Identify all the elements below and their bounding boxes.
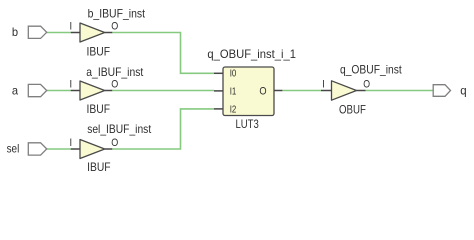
svg-text:b_IBUF_inst: b_IBUF_inst (88, 7, 146, 21)
input port sel (28, 143, 46, 155)
wire net sel: port sel to IBUF input (47, 148, 71, 150)
buffer q_OBUF_inst pin I stub (321, 90, 332, 92)
svg-text:O: O (363, 78, 370, 90)
buffer a_IBUF_inst pin O stub (105, 90, 113, 92)
svg-text:I: I (322, 78, 325, 90)
svg-text:I1: I1 (230, 87, 237, 98)
svg-text:LUT3: LUT3 (236, 117, 260, 131)
wire net q_OBUF: LUT3 O to OBUF input (282, 90, 321, 92)
svg-text:b: b (12, 25, 18, 39)
input port a (28, 84, 46, 96)
buffer b_IBUF_inst pin O stub (105, 32, 113, 34)
svg-text:q_OBUF_inst: q_OBUF_inst (340, 62, 402, 76)
svg-text:I: I (70, 78, 73, 90)
buffer b_IBUF_inst pin I stub (71, 32, 80, 34)
wire net b: port b to IBUF input (47, 32, 71, 34)
svg-text:I2: I2 (230, 105, 237, 116)
buffer q_OBUF_inst pin O stub (357, 90, 366, 92)
wire net b_IBUF: IBUF output to LUT3 I0 (112, 33, 214, 74)
svg-text:a_IBUF_inst: a_IBUF_inst (86, 65, 144, 79)
svg-text:O: O (111, 78, 118, 90)
buffer a_IBUF_inst pin I stub (71, 90, 80, 92)
svg-text:q: q (460, 83, 466, 97)
svg-text:IBUF: IBUF (87, 45, 111, 59)
LUT q_OBUF_inst_i_1 pin O stub (274, 90, 282, 92)
svg-text:sel_IBUF_inst: sel_IBUF_inst (87, 122, 152, 136)
svg-text:I: I (70, 20, 73, 32)
buffer sel_IBUF_inst pin I stub (71, 148, 80, 150)
svg-text:OBUF: OBUF (339, 102, 366, 116)
svg-text:a: a (12, 83, 18, 97)
svg-text:O: O (111, 20, 118, 32)
svg-text:sel: sel (7, 141, 20, 155)
wire net sel_IBUF: IBUF output to LUT3 I2 (112, 109, 214, 149)
input port b (28, 26, 46, 38)
svg-text:O: O (111, 137, 118, 149)
LUT q_OBUF_inst_i_1 (LUT3) (223, 67, 274, 116)
svg-text:I0: I0 (230, 69, 237, 80)
svg-text:I: I (70, 137, 73, 149)
buffer q_OBUF_inst (OBUF) (332, 81, 357, 100)
buffer a_IBUF_inst (IBUF) (80, 81, 105, 100)
buffer sel_IBUF_inst (IBUF) (80, 140, 105, 159)
LUT q_OBUF_inst_i_1 pin I1 stub (214, 90, 223, 92)
svg-text:O: O (259, 86, 267, 98)
LUT q_OBUF_inst_i_1 pin I0 stub (214, 72, 223, 74)
svg-text:q_OBUF_inst_i_1: q_OBUF_inst_i_1 (207, 47, 296, 61)
wire net q: OBUF output to port q (366, 90, 434, 92)
buffer b_IBUF_inst (IBUF) (80, 23, 105, 42)
LUT q_OBUF_inst_i_1 pin I2 stub (214, 108, 223, 110)
wire net a_IBUF: IBUF output to LUT3 I1 (112, 90, 214, 92)
wire net a: port a to IBUF input (47, 90, 71, 92)
buffer sel_IBUF_inst pin O stub (105, 148, 113, 150)
output port q (433, 85, 450, 97)
svg-text:IBUF: IBUF (87, 160, 111, 174)
svg-text:IBUF: IBUF (87, 102, 111, 116)
